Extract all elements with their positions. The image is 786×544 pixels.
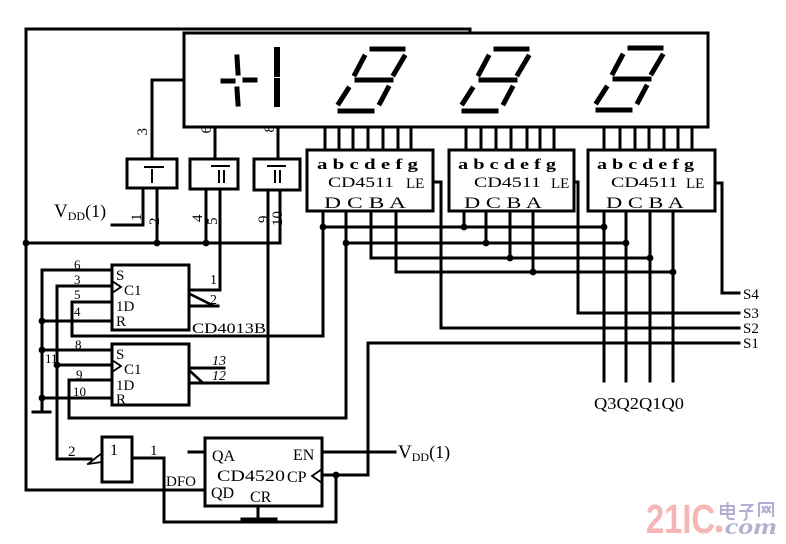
U2 pin B: [509, 211, 512, 258]
wire FF1 pin3 C1: [57, 285, 112, 288]
U3 segment pins: [604, 127, 692, 150]
wire bus B: [371, 257, 650, 260]
wire pin8 of T3 to display: [277, 127, 280, 159]
svg-text:21IC: 21IC: [646, 496, 715, 542]
svg-text:10: 10: [270, 211, 286, 226]
svg-text:CR: CR: [250, 489, 272, 506]
wire S2: [441, 327, 739, 330]
rail set-reset to ground: [41, 270, 44, 412]
svg-text:9: 9: [76, 367, 83, 382]
wire FF2 pin9 1D: [69, 379, 112, 382]
wire S4: [722, 292, 739, 295]
svg-text:R: R: [116, 314, 126, 330]
wire pin6 of T2 to display: [214, 127, 217, 159]
FF2 output pin13 stub: [190, 367, 224, 370]
watermark 21IC logo: [646, 496, 777, 542]
U4 EN wire to Vdd: [322, 451, 395, 454]
svg-text:2: 2: [68, 444, 76, 460]
U4 QA stub: [189, 451, 205, 454]
IC U2 CD4511 box: [449, 150, 574, 211]
wire pin4 of T2 to Vdd bus: [205, 189, 208, 243]
wire bus D: [323, 226, 604, 229]
U3 pin D to Q3: [603, 211, 606, 381]
svg-text:S1: S1: [743, 336, 759, 352]
U2 segment pins: [466, 127, 554, 150]
wire bus A: [396, 271, 673, 274]
svg-text:QD: QD: [211, 485, 234, 502]
svg-text:com: com: [725, 514, 777, 539]
segment driver box T1: [127, 159, 177, 188]
FF2 output pin12 inverted: [190, 371, 203, 383]
digit 8 first: [339, 49, 404, 111]
svg-text:CD4511: CD4511: [611, 175, 678, 191]
svg-text:2: 2: [210, 293, 217, 308]
wire FF1 pin6 S: [42, 269, 112, 272]
U4 CP inverting triangle: [312, 469, 322, 483]
FF1 output pin2 inverted stub: [190, 294, 214, 306]
segment driver box T3: [254, 159, 300, 190]
svg-text:4: 4: [74, 304, 81, 319]
wire FF1 pin4 R: [42, 320, 112, 323]
U1 LE pin to S2: [433, 182, 441, 328]
FF2 clock triangle: [112, 360, 121, 372]
wire FF2 pin8 S: [42, 349, 112, 352]
svg-text:1: 1: [110, 442, 118, 459]
svg-text:5: 5: [74, 287, 81, 302]
svg-text:C1: C1: [124, 362, 142, 378]
wire FF2 pin11 C1: [57, 364, 112, 367]
svg-text:a b c d e f g: a b c d e f g: [458, 157, 557, 173]
svg-text:13: 13: [212, 354, 226, 369]
svg-text:a b c d e f g: a b c d e f g: [597, 157, 695, 173]
svg-text:1: 1: [129, 214, 145, 222]
U2 LE pin to S3: [574, 182, 578, 313]
wire pin1 of T1 to Vdd label: [112, 188, 143, 225]
IC U3 CD4511 box: [588, 150, 715, 211]
U3 pin C to Q2: [625, 211, 628, 381]
svg-text:6: 6: [199, 126, 215, 134]
svg-text:C1: C1: [124, 283, 142, 299]
svg-text:10: 10: [73, 384, 86, 399]
wire outer top: [26, 29, 470, 33]
svg-text:4: 4: [190, 214, 206, 222]
svg-text:DFO: DFO: [166, 474, 196, 490]
ground G1: [33, 411, 50, 414]
U1 pin A: [395, 211, 398, 272]
U1 segment pins: [325, 127, 411, 150]
svg-text:LE: LE: [551, 176, 569, 192]
wire FF2 pin10 R: [42, 397, 112, 400]
svg-text:3: 3: [74, 272, 81, 287]
wire Vdd bus: [26, 242, 280, 245]
flip-flop FF2 CD4013B box: [112, 344, 189, 405]
svg-text:EN: EN: [293, 447, 315, 464]
svg-text:CD4511: CD4511: [328, 175, 394, 191]
svg-text:6: 6: [74, 257, 81, 272]
wire left rail: [25, 29, 28, 490]
wire FF1 output pin1: [190, 289, 220, 292]
U2 pin C: [485, 211, 488, 243]
svg-text:a b c d e f g: a b c d e f g: [317, 157, 419, 173]
U3 pin B to Q1: [649, 211, 652, 381]
svg-text:S: S: [116, 347, 124, 363]
wire pin5 of T2 to FF1 output 1: [190, 189, 220, 290]
U4 CR ground G2: [257, 506, 260, 519]
svg-text:S4: S4: [743, 287, 759, 303]
svg-text:CD4013B: CD4013B: [192, 321, 266, 337]
svg-text:D C B A: D C B A: [464, 195, 543, 212]
IC U4 CD4520 box: [205, 438, 322, 506]
U1 pin B: [370, 211, 373, 258]
svg-text:8: 8: [262, 125, 278, 133]
wire bus C: [346, 242, 626, 245]
svg-text:Q3Q2Q1Q0: Q3Q2Q1Q0: [594, 394, 684, 413]
svg-text:2: 2: [147, 218, 163, 226]
svg-text:LE: LE: [686, 176, 704, 192]
display module DS1: [184, 33, 708, 127]
segment driver box T2: [190, 159, 238, 189]
svg-text:R: R: [116, 392, 126, 408]
svg-text:CD4520: CD4520: [217, 468, 285, 485]
flip-flop FF1 CD4013B box: [112, 265, 189, 330]
wire pin9 of T3 to FF2 output 12: [267, 190, 270, 383]
wire S3: [578, 312, 739, 315]
U2 pin D: [463, 211, 466, 227]
svg-text:3: 3: [135, 128, 151, 136]
svg-text:1: 1: [210, 273, 217, 288]
FF1 clock triangle: [112, 281, 121, 293]
svg-text:VDD(1): VDD(1): [54, 201, 106, 223]
U4 CP wire: [324, 474, 368, 477]
svg-text:5: 5: [205, 218, 221, 226]
svg-text:S2: S2: [743, 321, 759, 337]
watermark chinese dianziwang: [721, 502, 773, 520]
svg-text:VDD(1): VDD(1): [398, 442, 450, 464]
svg-text:12: 12: [212, 369, 226, 384]
IC U1 CD4511 box: [307, 150, 433, 211]
wire pin2 of T1 to Vdd bus: [156, 188, 159, 243]
digit plus sign: [223, 57, 255, 104]
digit one: [274, 50, 280, 104]
svg-text:8: 8: [75, 337, 82, 352]
divider box 1: [102, 437, 132, 482]
U1 pin D: [72, 211, 323, 336]
wire divider output to DFO node: [132, 458, 336, 522]
U1 pin C: [69, 211, 346, 418]
svg-text:D C B A: D C B A: [606, 195, 685, 212]
svg-text:S3: S3: [743, 306, 759, 322]
U2 pin A: [532, 211, 535, 272]
rail clock C1 common: [57, 286, 91, 459]
U3 LE pin to S4: [715, 183, 722, 293]
divider clock wedge: [88, 453, 102, 464]
digit 8 third: [597, 48, 662, 110]
svg-text:CD4511: CD4511: [474, 175, 541, 191]
svg-text:QA: QA: [212, 448, 236, 465]
svg-text:D C B A: D C B A: [324, 195, 407, 212]
digit 8 second: [463, 49, 528, 111]
svg-text:LE: LE: [406, 176, 424, 192]
wire S1: [368, 343, 739, 475]
wire pin3 of T1 to display: [152, 80, 184, 159]
svg-text:CP: CP: [287, 469, 307, 486]
svg-text:S: S: [116, 268, 124, 284]
svg-text:1D: 1D: [116, 299, 135, 315]
U3 pin A to Q0: [672, 211, 675, 381]
wire QD feedback line: [26, 489, 205, 492]
svg-text:1: 1: [150, 443, 158, 459]
wire FF1 pin5 1D: [72, 301, 112, 304]
svg-text:11: 11: [45, 351, 58, 366]
wire pin10 of T3 to Vdd bus: [279, 190, 282, 243]
